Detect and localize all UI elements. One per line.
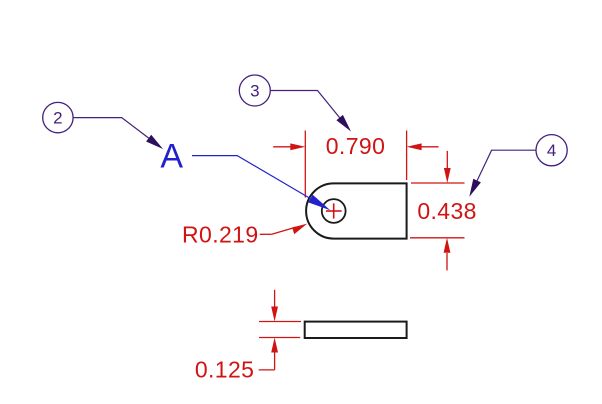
svg-text:0.125: 0.125 [195, 356, 255, 382]
svg-text:0.790: 0.790 [326, 133, 386, 159]
svg-text:0.438: 0.438 [417, 198, 477, 224]
svg-text:A: A [160, 138, 183, 176]
svg-text:3: 3 [250, 82, 259, 101]
svg-text:2: 2 [53, 109, 62, 128]
svg-text:4: 4 [547, 141, 556, 160]
svg-text:R0.219: R0.219 [182, 222, 259, 248]
